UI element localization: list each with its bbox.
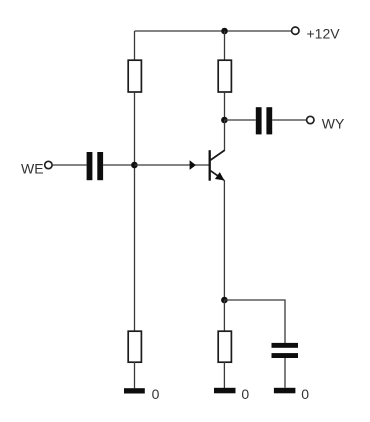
ground middle (214, 388, 236, 394)
wire base node to R2 (134, 165, 136, 331)
wire C3 to WY terminal (272, 119, 306, 121)
resistor R3 (218, 60, 231, 92)
resistor R1 (128, 60, 141, 92)
terminal +12V (292, 27, 299, 34)
junction emitter node (221, 297, 228, 304)
wire WE terminal to C1 (52, 164, 86, 166)
transistor Q1 (210, 150, 225, 181)
wire emitter node to R4 (223, 300, 225, 331)
wire collector node down to transistor (224, 120, 226, 151)
wire rail node to R3 (224, 31, 226, 61)
junction rail node (221, 28, 228, 35)
base arrow (190, 160, 196, 170)
wire collector node to C3 (225, 119, 256, 121)
wire emitter node to C2 (224, 300, 285, 343)
svg-text:WE: WE (21, 161, 44, 177)
svg-text:0: 0 (152, 386, 160, 402)
junction base node (131, 162, 138, 169)
wire R4 to ground (223, 362, 225, 388)
wire base node to transistor base (135, 164, 210, 166)
junction collector node (221, 117, 228, 124)
resistor R2 (128, 331, 141, 362)
wire R3 to collector node (224, 92, 226, 120)
terminal WE (45, 161, 52, 168)
svg-text:0: 0 (241, 386, 249, 402)
svg-text:0: 0 (301, 386, 309, 402)
wire emitter down to emitter node (223, 180, 225, 300)
capacitor C3 (256, 107, 272, 134)
wire R2 to ground (134, 362, 136, 388)
resistor R4 (218, 331, 231, 362)
wire C2 to ground (284, 358, 286, 388)
wire R1 to base node (134, 92, 136, 165)
terminal WY (307, 116, 314, 123)
svg-text:WY: WY (322, 116, 345, 132)
ground left (124, 388, 145, 393)
capacitor C2 (272, 343, 299, 358)
wire C1 to base node (103, 164, 134, 166)
wire rail to R1 (134, 31, 136, 61)
ground right (274, 388, 296, 394)
svg-text:+12V: +12V (307, 25, 341, 41)
capacitor C1 (87, 152, 104, 180)
wire +12V supply rail (135, 30, 292, 32)
